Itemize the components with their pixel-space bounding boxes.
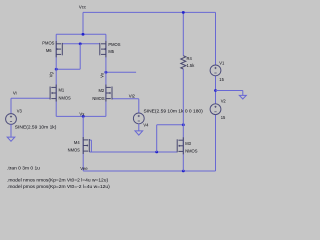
- svg-text:M1: M1: [59, 87, 65, 92]
- svg-text:SINE(2.59 10m 1k 0 0 180): SINE(2.59 10m 1k 0 0 180): [144, 108, 204, 114]
- wire Vee rail: [83, 170, 215, 172]
- wire V4 minus to ground: [138, 124, 140, 131]
- junction supply midpoint: [214, 89, 217, 92]
- junction node Vg: [55, 68, 58, 71]
- svg-text:PMOS: PMOS: [42, 41, 54, 46]
- svg-text:M4: M4: [74, 140, 80, 145]
- svg-text:V3: V3: [17, 108, 23, 113]
- svg-text:V2: V2: [221, 98, 227, 103]
- wire PMOS source rail: [56, 33, 106, 35]
- wire Vcc stem: [82, 12, 84, 34]
- transistor M3 (NMOS): [177, 137, 183, 154]
- transistor M1 (NMOS): [50, 85, 56, 102]
- svg-text:R4: R4: [187, 56, 193, 61]
- wire M6-M5 gate rail: [62, 43, 100, 45]
- junction R4/M3 drain node: [182, 124, 185, 127]
- wire right branch column M5-M2: [105, 34, 107, 116]
- ground under V4: [135, 131, 143, 135]
- svg-text:NMOS: NMOS: [92, 96, 105, 101]
- junction node Vo: [105, 71, 108, 74]
- transistor M6 (PMOS, mirrored): [56, 41, 62, 57]
- wire midpoint to ground: [216, 90, 243, 92]
- junction gate rail / riser: [155, 151, 158, 154]
- svg-text:.model nmos nmos(Kp=2m Vt0=2 l: .model nmos nmos(Kp=2m Vt0=2 l=4u w=12u): [7, 178, 108, 184]
- wire ground drop: [242, 91, 244, 96]
- transistor M2 (NMOS, mirrored): [106, 85, 112, 102]
- ground at supply midpoint: [239, 95, 246, 99]
- svg-text:M6: M6: [46, 48, 52, 53]
- svg-text:.model pmos pmos(Kp=2m Vt0=-2: .model pmos pmos(Kp=2m Vt0=-2 l=4u w=12u…: [7, 184, 110, 190]
- svg-text:V4: V4: [143, 123, 149, 128]
- svg-text:1.5k: 1.5k: [187, 63, 196, 68]
- svg-text:Vi: Vi: [13, 91, 17, 96]
- svg-text:NMOS: NMOS: [185, 148, 198, 153]
- wire left node to diode drop: [56, 68, 80, 70]
- wire Vi2 input to M2 gate: [112, 98, 139, 100]
- junction gate rail tee: [79, 43, 82, 46]
- junction Vcc stem / PMOS rail: [82, 33, 85, 36]
- wire M3 diode top: [157, 124, 184, 126]
- voltage source V4 (sine input): [133, 113, 144, 124]
- svg-text:V1: V1: [219, 61, 225, 66]
- svg-text:15: 15: [221, 115, 226, 120]
- wire M4 diode hook top: [89, 139, 91, 141]
- svg-text:Vx: Vx: [79, 112, 85, 117]
- svg-text:Vo: Vo: [99, 72, 104, 78]
- wire tail rail Vs: [56, 115, 106, 117]
- wire M3 diode riser: [156, 125, 158, 152]
- wire mirror diode drop: [79, 44, 81, 69]
- wire node Vo stub: [106, 71, 136, 73]
- svg-text:M5: M5: [108, 49, 114, 54]
- svg-text:NMOS: NMOS: [59, 95, 72, 100]
- junction tail node Vs: [82, 115, 85, 118]
- wire V1 minus to V2 plus: [215, 76, 217, 104]
- ground under V3: [7, 137, 15, 141]
- svg-text:M3: M3: [185, 141, 191, 146]
- wire Vcc to R4 top: [182, 12, 184, 55]
- svg-text:15: 15: [219, 77, 224, 82]
- wire tail node down through M4 to Vee: [82, 116, 84, 171]
- svg-text:M2: M2: [99, 88, 105, 93]
- svg-text:PMOS: PMOS: [108, 42, 120, 47]
- wire M4 diode hook down: [90, 140, 92, 152]
- junction Vcc/R4: [182, 11, 185, 14]
- transistor M4 (NMOS, mirrored): [83, 137, 89, 154]
- svg-text:Vcc: Vcc: [79, 4, 87, 9]
- wire Vi input to M1 gate: [11, 97, 50, 99]
- wire left branch column M6-M1: [55, 34, 57, 116]
- svg-text:NMOS: NMOS: [68, 148, 81, 153]
- wire V2 minus to Vee rail: [215, 114, 217, 171]
- wire V3 top riser: [10, 98, 12, 114]
- voltage source V3 (sine input): [6, 114, 17, 125]
- wire R4 bottom through M3 to Vee: [182, 69, 184, 171]
- svg-text:Vi2: Vi2: [129, 93, 136, 98]
- svg-text:SINE(2.59 10m 1k): SINE(2.59 10m 1k): [15, 125, 57, 131]
- junction Vee/M3 source: [182, 170, 185, 173]
- wire V3 minus to ground: [10, 124, 12, 137]
- wire Vcc rail top: [83, 11, 216, 13]
- svg-text:Vee: Vee: [80, 166, 88, 171]
- wire V4 top riser: [138, 99, 140, 113]
- transistor M5 (PMOS): [100, 41, 106, 57]
- voltage source V1 (15V): [210, 65, 221, 76]
- resistor R4: [181, 56, 186, 69]
- svg-text:.tran 0 3m 0 1u: .tran 0 3m 0 1u: [7, 165, 40, 171]
- wire Vcc rail down to V1: [215, 12, 217, 65]
- voltage source V2 (15V): [210, 104, 221, 115]
- wire M4-M3 gate rail: [89, 151, 177, 153]
- svg-text:Vg: Vg: [48, 71, 53, 77]
